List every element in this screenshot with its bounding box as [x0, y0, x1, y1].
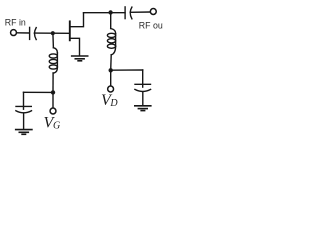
capacitor C3 curved plate	[135, 89, 151, 91]
ground (right, below C3)	[135, 106, 151, 111]
node A (gate junction)	[51, 31, 55, 35]
capacitor C1 straight plate	[29, 27, 31, 39]
svg-text:D: D	[109, 98, 118, 109]
wire: junction down to VD terminal	[110, 70, 112, 85]
wire: VG row horizontal	[24, 91, 54, 93]
ground (left, below C4)	[16, 130, 32, 135]
wire: top junction down to L2	[110, 13, 112, 29]
wire: VD junction to C3	[111, 69, 143, 71]
node C (VD junction)	[109, 68, 113, 72]
transistor Q1 source lead	[71, 38, 80, 55]
inductor L1 (gate bias choke)	[53, 48, 57, 53]
capacitor C1 curved plate	[35, 28, 37, 40]
node D (VG junction)	[51, 90, 55, 94]
svg-text:RF in: RF in	[5, 18, 26, 28]
wire: C2 to output port	[130, 11, 150, 13]
capacitor C2 straight plate	[124, 7, 126, 19]
wire: junction down to VG terminal	[52, 92, 54, 107]
VD terminal	[108, 86, 114, 92]
wire: C4 bottom lead	[23, 113, 25, 129]
input port terminal	[11, 30, 17, 36]
inductor L2 (drain bias choke)	[111, 29, 116, 34]
capacitor C4 curved plate	[16, 111, 32, 113]
transistor Q1 drain lead	[71, 13, 84, 27]
wire: drain to top rail	[84, 12, 126, 14]
output port terminal	[150, 9, 156, 15]
wire: C1 to gate	[34, 32, 69, 34]
wire: C3 bottom lead	[142, 92, 144, 105]
wire: input port to C1	[17, 32, 29, 34]
transistor Q1 gate bar	[69, 21, 71, 40]
wire: C3 top lead	[142, 70, 144, 87]
wire: C4 top lead	[23, 92, 25, 109]
node B (top rail junction)	[108, 10, 112, 14]
VG terminal	[50, 108, 56, 114]
wire: gate junction down to L1	[52, 33, 55, 47]
svg-text:RF out: RF out	[139, 20, 163, 30]
svg-text:G: G	[53, 121, 60, 132]
ground (source)	[72, 56, 88, 61]
capacitor C4 straight plate	[16, 105, 31, 107]
capacitor C3 straight plate	[135, 83, 151, 85]
capacitor C2 curved plate	[130, 7, 132, 19]
